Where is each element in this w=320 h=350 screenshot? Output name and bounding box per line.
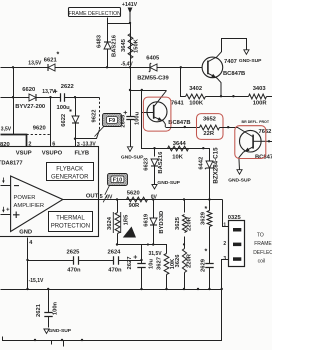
label 31.5V [149, 251, 163, 257]
svg-text:-13,3V: -13,3V [81, 142, 96, 148]
svg-text:220R: 220R [187, 253, 193, 268]
svg-text:7407: 7407 [224, 59, 237, 65]
svg-text:9620: 9620 [33, 126, 46, 132]
svg-text:6442: 6442 [198, 157, 204, 170]
diode 6483 BAS216 [104, 42, 111, 49]
wire rail 13.7V row [1, 97, 61, 99]
node rail A 6483 [106, 66, 108, 68]
node emitter wire [184, 126, 186, 128]
wire non-inverting input [1, 214, 11, 216]
wire 2627 top [141, 245, 143, 264]
wire 22R to 7652 base [220, 128, 253, 137]
node rail D float [197, 288, 199, 290]
wire 2621 top [48, 290, 50, 313]
svg-text:100u: 100u [57, 105, 71, 111]
label TO [257, 233, 264, 239]
svg-text:-15,1V: -15,1V [29, 278, 44, 284]
wire 6623 down [154, 149, 156, 157]
node 3624 top [116, 198, 118, 200]
label 100K [189, 100, 204, 106]
label 0325 [228, 215, 242, 221]
connector 0325 [229, 221, 245, 267]
label BAS216 (6623) [158, 151, 164, 174]
pin 3 (0325) [223, 256, 226, 262]
svg-text:GND-SUP: GND-SUP [121, 155, 144, 161]
svg-text:100n: 100n [52, 301, 58, 315]
wire stub bottom b [63, 341, 65, 347]
node rail A 3402 tap [180, 66, 182, 68]
label 6621 [44, 57, 58, 63]
label 2629 [201, 258, 207, 272]
svg-text:TDA8177: TDA8177 [0, 160, 23, 166]
resistor 5620 90R [127, 197, 148, 202]
svg-text:820: 820 [0, 142, 10, 148]
label 100u (2622) [57, 105, 71, 111]
junction mark small square [70, 110, 72, 112]
node 2627 top [147, 243, 149, 245]
label 1R5 [124, 214, 130, 225]
label VSUPO [42, 151, 63, 157]
svg-text:VSUPO: VSUPO [42, 151, 63, 157]
wire 2621 bottom [48, 317, 50, 328]
label 6405 [146, 55, 160, 61]
wire 7641 emitter to 22R [166, 127, 200, 129]
svg-text:6621: 6621 [44, 57, 58, 63]
wire 3644 row [155, 148, 204, 150]
label GND-SUP (7407) [239, 58, 262, 64]
svg-text:PROTECTION: PROTECTION [51, 224, 90, 230]
wire pin4 vertical [27, 238, 29, 290]
label 0V (out) [106, 194, 113, 200]
wire left bus vertical [13, 68, 15, 135]
svg-text:3626: 3626 [175, 254, 181, 268]
highlight box 7652 [235, 126, 266, 159]
svg-text:9622: 9622 [91, 110, 97, 123]
svg-text:FLYB: FLYB [75, 151, 90, 157]
svg-text:13,7V: 13,7V [42, 89, 56, 95]
wire feedback caps row right [119, 260, 142, 262]
label -5.4V [121, 62, 134, 68]
node rail D corner [221, 288, 223, 290]
node bottom rail c [81, 339, 83, 341]
wire rail C middle [206, 96, 249, 98]
svg-text:2: 2 [28, 141, 31, 147]
label BZX284-C15 [213, 147, 220, 184]
svg-text:470n: 470n [67, 267, 81, 273]
label 0V (right) [151, 195, 158, 201]
svg-text:1R5: 1R5 [124, 214, 130, 225]
svg-text:3652: 3652 [203, 117, 216, 123]
flyback generator box [47, 163, 94, 181]
thermal protection box [49, 212, 93, 232]
node pin3 [74, 138, 76, 140]
svg-text:coil: coil [258, 259, 266, 265]
svg-text:6623: 6623 [143, 157, 149, 171]
label BAS216 [112, 34, 118, 57]
wire 3624 branch top [117, 200, 119, 213]
svg-text:BZX284-C15: BZX284-C15 [213, 147, 220, 184]
svg-text:2625: 2625 [67, 249, 81, 255]
label 100u (2645) [135, 111, 141, 125]
label 2627 [127, 257, 133, 270]
label 3402 [189, 86, 202, 92]
capacitor 2627 10u [134, 255, 146, 267]
ground GND-SUP (7652) [237, 170, 242, 175]
label BC847B (7652) [255, 155, 277, 161]
svg-text:10K: 10K [172, 154, 183, 160]
wire pin3 stub [75, 139, 77, 147]
resistor 3627 10K [164, 254, 169, 275]
node rail B pin6 [49, 96, 51, 98]
+141V supply arrow [128, 8, 133, 24]
pin 2 [28, 141, 31, 147]
svg-text:0V: 0V [106, 194, 113, 200]
wire rail -5.4V [1, 67, 203, 69]
label 9622 [91, 110, 97, 123]
wire 7641 collector node [131, 90, 167, 92]
capacitor 2621 100n [44, 313, 52, 317]
svg-text:FRAME DEFLECTION: FRAME DEFLECTION [68, 11, 121, 17]
node supply junction [129, 22, 131, 24]
capacitor 2645 100u [124, 111, 135, 120]
transistor 7407 BC847B [202, 38, 223, 96]
wire 150K resistor vertical [130, 24, 132, 68]
jumper 9622 dashed [99, 98, 101, 130]
diode 6621 [48, 64, 55, 71]
label 820 (cut) [0, 142, 10, 148]
node 6619 bottom [152, 243, 154, 245]
wire feedback caps row [28, 260, 74, 262]
ground GND-SUP (2645) [127, 147, 132, 152]
label BC847B (7641) [168, 120, 190, 126]
svg-text:FLYBACK: FLYBACK [56, 167, 83, 173]
label VSUP [16, 151, 32, 157]
label 10K (3627) [170, 258, 176, 269]
wire 3402 tap vertical [181, 68, 186, 97]
arrow input 1 [2, 178, 5, 184]
svg-text:*: * [205, 249, 208, 256]
wire 6483 branch vertical [107, 24, 109, 68]
label -15.1V [29, 278, 44, 284]
node bottom rail a [34, 339, 36, 341]
label 3652 [203, 117, 216, 123]
svg-text:BR DEFL. PROT: BR DEFL. PROT [242, 120, 270, 124]
capacitor 2624 470n [114, 256, 119, 264]
label GND-SUP (2645) [121, 155, 144, 161]
svg-text:31,5V: 31,5V [149, 251, 163, 257]
svg-text:GND-SUP: GND-SUP [157, 180, 180, 186]
wire bottom rail [3, 290, 222, 341]
transistor 7652 BC847B [239, 130, 269, 169]
label DEFLECTION [253, 250, 285, 256]
label OUT [86, 193, 99, 199]
label GND-SUP (7652) [228, 177, 251, 183]
label 10u [149, 259, 155, 269]
label 10K (3644) [172, 154, 183, 160]
svg-text:2629: 2629 [201, 258, 207, 272]
svg-text:2627: 2627 [127, 257, 133, 270]
svg-text:F9: F9 [109, 118, 115, 124]
svg-text:GND: GND [19, 230, 32, 236]
pin 5 [100, 194, 103, 200]
svg-text:VSUP: VSUP [16, 151, 32, 157]
label 3629 star [205, 206, 208, 213]
label 3629 [201, 211, 207, 225]
node rail B 6622 [74, 96, 76, 98]
wire 3624 bottom [117, 234, 119, 245]
node rail D pin4 [26, 288, 28, 290]
wire 3629 to 2629 [209, 227, 211, 264]
wire 6622 branch [75, 98, 77, 139]
wire 3626 top [184, 237, 186, 249]
label 3627 [157, 257, 163, 270]
svg-text:100u: 100u [135, 111, 141, 125]
node rail C second [232, 95, 234, 97]
label 6621 star [57, 52, 60, 59]
transistor 7641 BC847B [147, 91, 167, 128]
pin 2 (0325) [223, 241, 226, 247]
svg-text:6483: 6483 [96, 34, 102, 48]
svg-text:THERMAL: THERMAL [56, 216, 85, 222]
wire 3625 top [184, 200, 186, 213]
label 220R (3626) [187, 253, 193, 268]
node rail D 3627 [165, 288, 167, 290]
resistor 3644 10K [168, 146, 189, 151]
diode 6622 [72, 116, 79, 123]
wire 3629 top [209, 200, 211, 211]
svg-text:7652: 7652 [259, 129, 272, 135]
svg-text:3629: 3629 [201, 211, 207, 225]
wire out rail 0V [99, 199, 223, 201]
resistor 3625 220R [182, 215, 186, 233]
label 6442 [198, 157, 204, 170]
label 3644 [173, 141, 187, 147]
label 5620 [127, 191, 140, 197]
label 22R [203, 131, 214, 137]
node 22R output [227, 126, 229, 128]
svg-text:OUT: OUT [86, 193, 99, 199]
ground GND-SUP (7407) [244, 50, 249, 55]
svg-text:3,5V: 3,5V [1, 127, 12, 133]
wire 31.5V node [118, 245, 167, 254]
wire 7641 base stub [142, 112, 154, 114]
svg-text:0V: 0V [151, 195, 158, 201]
label 2629 star [205, 249, 208, 256]
wire supply to 6483 branch [108, 18, 131, 24]
label 2621 [36, 303, 42, 317]
pin 4 [29, 240, 33, 246]
wire op-amp output [63, 199, 99, 201]
svg-text:*: * [57, 52, 60, 59]
label 3645 [121, 38, 127, 52]
svg-text:BYV27-200: BYV27-200 [15, 104, 45, 110]
label TDA8177 [0, 160, 23, 166]
label 470n (2625) [67, 267, 81, 273]
wire out rail to connector pin1 [223, 200, 229, 227]
pin 6 [52, 141, 55, 147]
svg-text:6405: 6405 [146, 55, 160, 61]
node 6623 [153, 147, 155, 149]
op-amp power amplifier [11, 176, 63, 232]
label 13.7V [42, 89, 56, 95]
node pin4 caps [26, 259, 28, 261]
svg-text:2645: 2645 [121, 114, 127, 128]
label 9620 [33, 126, 46, 132]
svg-text:13,5V: 13,5V [28, 60, 42, 66]
svg-text:AMPLIFIER: AMPLIFIER [14, 203, 45, 209]
wire 6442 branch [204, 149, 210, 162]
pin 3 [77, 142, 80, 148]
label 90R [129, 203, 140, 209]
node 7407 emitter [220, 95, 222, 97]
svg-text:5620: 5620 [127, 191, 140, 197]
label 6620 [22, 87, 35, 93]
highlight box 3652 [197, 114, 224, 140]
svg-text:3625: 3625 [175, 216, 181, 230]
node 3644 right [202, 147, 204, 149]
wire 6623 to gnd [154, 167, 156, 185]
svg-text:6620: 6620 [22, 87, 35, 93]
svg-text:7641: 7641 [171, 101, 185, 107]
wire 2627 bottom [141, 268, 143, 290]
node rail D 2627 [140, 288, 142, 290]
pin 1 (0325) [223, 222, 226, 228]
wire 3627 bottom [166, 275, 168, 290]
wire 6619 bottom [153, 226, 155, 245]
svg-text:BAS216: BAS216 [158, 151, 164, 174]
node base bus top [141, 89, 143, 91]
svg-text:150K: 150K [134, 38, 140, 53]
label FRAME [254, 241, 272, 247]
fuse F10 callout [105, 174, 128, 195]
node 3624 bottom [116, 243, 118, 245]
label 6623 [143, 157, 149, 171]
label 150K [134, 38, 140, 53]
node divider mid float [183, 243, 185, 245]
label BYD33D [159, 211, 165, 234]
svg-text:1: 1 [223, 222, 226, 228]
label BYV27-200 [15, 104, 45, 110]
resistor 3402 100K [186, 94, 206, 99]
wire 6442 to rail [209, 169, 211, 200]
fuse F9 callout [95, 114, 122, 137]
diode 6623 BAS216 [151, 159, 158, 166]
node 6619 top [152, 198, 154, 200]
node 6442 rail [208, 198, 210, 200]
wire feedback caps row mid [79, 260, 114, 262]
jumper 9620 dashed [27, 134, 51, 136]
ground GND-SUP (6623) [152, 185, 157, 190]
label BR DEFL. PROT [242, 120, 270, 124]
diode 6620 BYV27-200 [29, 94, 36, 101]
svg-text:+141V: +141V [122, 2, 138, 8]
svg-text:3627: 3627 [157, 257, 163, 270]
node 7652 collector [268, 140, 270, 142]
svg-text:0325: 0325 [228, 215, 242, 221]
svg-text:3402: 3402 [189, 86, 202, 92]
svg-text:3645: 3645 [121, 38, 127, 52]
label 2625 [67, 249, 81, 255]
node rail A 150K [129, 66, 131, 68]
wire 2629 bottom [209, 268, 211, 290]
wire stub bottom a [51, 341, 53, 345]
IC TDA8177 body [0, 147, 99, 237]
svg-text:DEFLECTION: DEFLECTION [253, 250, 272, 256]
label 3.5V (cut) [1, 127, 12, 133]
svg-text:BAS216: BAS216 [112, 34, 118, 57]
resistor 3629 [207, 211, 212, 227]
capacitor 2625 470n [74, 256, 79, 264]
wire 6619 branch [153, 200, 155, 218]
label 6619 [144, 213, 150, 227]
svg-text:*: * [205, 206, 208, 213]
svg-text:F10: F10 [113, 178, 122, 184]
label 3403 [253, 86, 267, 92]
wire 3626 bottom [184, 273, 186, 290]
svg-text:GENERATOR: GENERATOR [51, 175, 89, 181]
wire rail C to edge [267, 96, 273, 98]
svg-text:90R: 90R [129, 203, 140, 209]
node rail B left [12, 96, 14, 98]
svg-text:6: 6 [52, 141, 55, 147]
label 100n [52, 301, 58, 315]
svg-text:100K: 100K [189, 100, 204, 106]
label 2624 [108, 249, 122, 255]
label coil [258, 259, 266, 265]
label 220R (3625) [187, 216, 193, 231]
svg-text:BC847B: BC847B [223, 71, 245, 77]
svg-text:GND-SUP: GND-SUP [239, 58, 262, 64]
arrow input 2 [2, 207, 9, 213]
svg-text:TO: TO [257, 233, 264, 239]
svg-text:2621: 2621 [36, 303, 42, 317]
ground GND-SUP (2621) [44, 329, 49, 334]
svg-text:2622: 2622 [61, 84, 74, 90]
wire rail -15.1V [1, 289, 222, 291]
label 3626 [175, 254, 181, 268]
svg-text:BZM55-C39: BZM55-C39 [137, 75, 169, 81]
node collector wire left [129, 89, 131, 91]
label 7652 [259, 129, 272, 135]
svg-text:BYD33D: BYD33D [159, 211, 165, 234]
resistor 3626 220R [182, 249, 186, 273]
resistor 3403 100R [249, 94, 267, 99]
svg-text:220R: 220R [187, 216, 193, 231]
wire 150K bottom to cap 2645 [130, 68, 132, 117]
label BZM55-C39 [137, 75, 169, 81]
resistor 3645 150K [128, 34, 133, 59]
label 100R [253, 100, 268, 106]
wire VSUP 13.5V feed [1, 135, 27, 147]
label 470n (2624) [108, 267, 122, 273]
resistor 3624 1R5 [113, 212, 120, 234]
node 2624 right [140, 259, 142, 261]
FRAME DEFLECTION block label [68, 8, 121, 17]
+141V supply label [122, 2, 138, 8]
node rail D 2621 [47, 288, 49, 290]
svg-text:3: 3 [77, 142, 80, 148]
label 2622 [61, 84, 74, 90]
svg-text:100R: 100R [253, 100, 268, 106]
label 13.5V [28, 60, 42, 66]
wire pin3 node [76, 130, 100, 139]
slash measure mark [103, 195, 107, 202]
label GND-SUP (6623) [157, 180, 180, 186]
node 3625 top [183, 198, 185, 200]
label GND-SUP (2621) [49, 328, 72, 334]
svg-text:2624: 2624 [108, 249, 122, 255]
capacitor 2629 [205, 264, 213, 268]
